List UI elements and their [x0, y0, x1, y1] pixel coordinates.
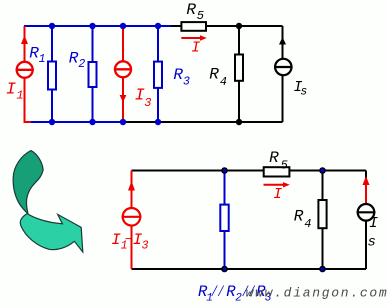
green arrow lower band with head [20, 214, 82, 253]
resistor R3 [154, 26, 162, 122]
wire bottom rail red stub [24, 121, 32, 123]
green arrow upper band [13, 151, 43, 214]
svg-text:5: 5 [197, 9, 204, 23]
current source Is top [274, 26, 293, 122]
svg-text:s: s [300, 86, 307, 99]
svg-text:/: / [218, 283, 225, 300]
node bottom R2 [89, 119, 95, 125]
node top R4 bottom [319, 167, 326, 174]
svg-text:R: R [209, 65, 219, 83]
node top R1 [49, 23, 55, 29]
svg-text:www.diangon.com: www.diangon.com [246, 285, 388, 300]
svg-text:R: R [69, 50, 79, 68]
current arrow I bottom [264, 182, 290, 187]
svg-text:2: 2 [235, 293, 242, 305]
current source Is bottom [357, 171, 376, 270]
resistor R4 top [235, 26, 243, 122]
svg-text:I: I [369, 215, 378, 232]
resistor R4 bottom [318, 171, 326, 270]
resistor R5 bottom [264, 167, 290, 176]
svg-text:2: 2 [78, 58, 85, 71]
svg-text:s: s [368, 234, 376, 250]
svg-text:R: R [294, 208, 304, 226]
wire bottom rail blue [31, 121, 123, 123]
node bottom I3 [120, 119, 126, 125]
svg-text:I: I [6, 81, 16, 100]
current source I3 [114, 26, 132, 122]
svg-text:R: R [186, 1, 196, 19]
svg-text:1: 1 [16, 89, 23, 103]
node bottom R1 [49, 119, 55, 125]
resistor R5 top [181, 22, 206, 31]
resistor R2 [89, 26, 97, 122]
wire top rail blue [24, 25, 171, 27]
svg-text:R: R [173, 66, 183, 84]
node top R4 [236, 23, 242, 29]
resistor R1 [48, 26, 56, 122]
wire bottom rail [132, 268, 367, 270]
node top R3 [155, 23, 161, 29]
current source I1 [16, 26, 34, 122]
wire top rail black [171, 25, 283, 27]
svg-text:3: 3 [142, 240, 149, 253]
svg-text:R: R [269, 149, 279, 167]
node top parallel resistor [221, 167, 228, 174]
current arrow I top [181, 35, 207, 40]
node bottom parallel resistor [221, 266, 228, 273]
node bottom R3 [155, 119, 161, 125]
svg-text:I: I [273, 186, 282, 203]
node top R2 [89, 23, 95, 29]
svg-text:−: − [125, 232, 133, 247]
svg-text:/: / [211, 283, 218, 300]
resistor R1//R2//R3 [220, 171, 228, 270]
label R1//R2//R3 [198, 283, 272, 305]
node bottom R4 bottom [319, 266, 326, 273]
svg-text:1: 1 [39, 53, 46, 66]
svg-text:3: 3 [144, 96, 151, 110]
wire top rail [132, 170, 367, 172]
svg-text:I: I [191, 39, 200, 56]
svg-text:4: 4 [304, 217, 311, 231]
current source I1-I3 [122, 171, 142, 270]
node top I3 [120, 23, 126, 29]
svg-text:3: 3 [183, 76, 190, 89]
wire bottom rail black [123, 121, 283, 123]
svg-text:5: 5 [281, 159, 288, 173]
svg-text:4: 4 [220, 75, 227, 89]
node bottom R4 [236, 119, 242, 125]
